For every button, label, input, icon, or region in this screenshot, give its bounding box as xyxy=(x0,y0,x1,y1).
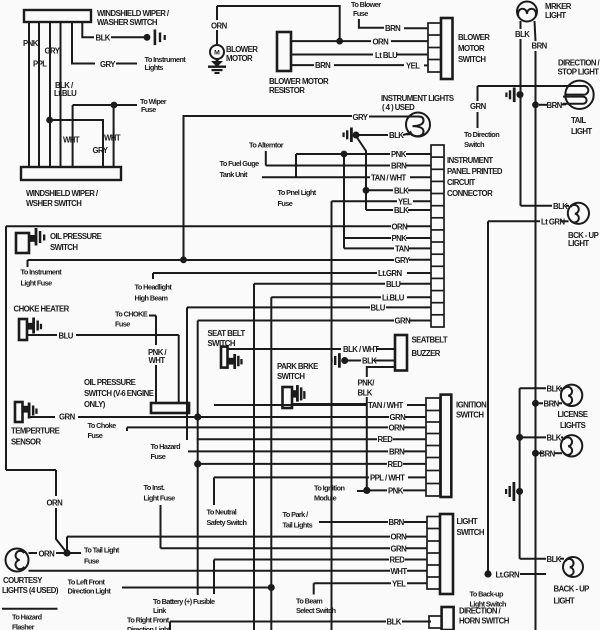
ignition switch connector xyxy=(426,395,451,497)
svg-text:BLK: BLK xyxy=(547,555,562,564)
svg-text:PNK: PNK xyxy=(388,486,404,495)
wire To Alterntor drop xyxy=(265,151,267,166)
wire BRN row2 xyxy=(266,165,390,167)
wire BRN to blower fuse xyxy=(359,19,384,28)
seatbelt buzzer connector xyxy=(395,335,407,371)
wire BLK row6 xyxy=(366,209,393,211)
svg-text:LIGHT: LIGHT xyxy=(571,127,592,136)
svg-text:To Left Front: To Left Front xyxy=(68,578,106,587)
svg-text:Fuse: Fuse xyxy=(353,9,368,18)
wire BRN marker down xyxy=(535,21,536,41)
svg-text:To Hazard: To Hazard xyxy=(12,613,42,622)
svg-text:DIRECTION /: DIRECTION / xyxy=(558,59,600,68)
svg-text:PPL / WHT: PPL / WHT xyxy=(370,473,405,482)
svg-text:SWITCH: SWITCH xyxy=(50,243,78,252)
junction GRY row10 xyxy=(180,256,187,263)
instrument panel printed circuit connector teeth xyxy=(431,145,444,327)
svg-text:BLU: BLU xyxy=(371,303,386,312)
wire Lt GRN bck-up xyxy=(488,221,569,574)
wire PNK ignition row / to ignition module xyxy=(357,489,426,492)
svg-text:PANEL PRINTED: PANEL PRINTED xyxy=(447,167,503,176)
svg-text:PNK: PNK xyxy=(392,234,408,243)
junction GRN row xyxy=(194,413,201,420)
svg-text:TAN / WHT: TAN / WHT xyxy=(368,401,404,410)
wire BRN to park/tail lights xyxy=(319,521,388,523)
svg-text:SWITCH: SWITCH xyxy=(456,411,484,420)
svg-text:Safety Switch: Safety Switch xyxy=(207,518,247,527)
svg-text:BRN: BRN xyxy=(389,518,405,527)
wire ORN row7 long xyxy=(6,225,391,227)
svg-text:SEAT BELT: SEAT BELT xyxy=(208,329,246,338)
svg-text:To Choke: To Choke xyxy=(88,421,117,430)
wire BLU row12 xyxy=(254,283,385,285)
svg-text:BLU: BLU xyxy=(59,332,74,341)
svg-text:TAIL: TAIL xyxy=(571,116,586,125)
wire TAN row9 xyxy=(344,247,394,249)
svg-text:BLK: BLK xyxy=(547,385,562,394)
wire BLU choke heater xyxy=(27,335,179,403)
svg-text:GRY: GRY xyxy=(45,47,61,56)
svg-text:GRN: GRN xyxy=(470,102,487,111)
svg-text:RED: RED xyxy=(388,460,404,469)
svg-text:LICENSE: LICENSE xyxy=(558,410,588,419)
svg-text:BLK: BLK xyxy=(387,618,402,627)
svg-text:To Blower: To Blower xyxy=(351,0,381,9)
svg-text:TAN / WHT: TAN / WHT xyxy=(371,173,407,182)
wire PNK drop to TAN/WHT xyxy=(295,154,297,177)
windshield wiper / wsher switch (bottom bar) xyxy=(21,167,121,208)
wire park brake to PNK/BLK xyxy=(292,403,367,405)
license lights bulb 2 xyxy=(561,435,582,456)
svg-text:BLU: BLU xyxy=(386,280,401,289)
blower motor switch connector xyxy=(428,18,453,79)
svg-text:Light Fuse: Light Fuse xyxy=(144,494,176,503)
wire BRN license 2 xyxy=(539,452,562,454)
svg-text:To Tail Light: To Tail Light xyxy=(84,546,120,555)
svg-text:PNK/: PNK/ xyxy=(358,379,376,388)
svg-text:BRN: BRN xyxy=(547,101,563,110)
svg-text:BLK: BLK xyxy=(96,34,111,43)
svg-text:( 4 ) USED: ( 4 ) USED xyxy=(382,103,415,112)
svg-text:WHT: WHT xyxy=(63,136,80,145)
svg-text:Light Fuse: Light Fuse xyxy=(21,279,53,288)
wire BLK marker down xyxy=(521,21,536,630)
svg-text:To Fuel Guge: To Fuel Guge xyxy=(220,159,260,168)
wire GRN drop to battery link xyxy=(197,321,199,596)
direction / stop light (tail light bulb) xyxy=(563,81,594,109)
svg-text:Fuse: Fuse xyxy=(151,452,166,461)
svg-text:WINDSHIELD WIPER /: WINDSHIELD WIPER / xyxy=(97,9,170,18)
wire ORN resistor row xyxy=(291,40,371,42)
svg-text:ORN: ORN xyxy=(373,38,390,47)
svg-text:Lt.GRN: Lt.GRN xyxy=(496,571,520,580)
svg-text:Li.BLU: Li.BLU xyxy=(382,293,405,302)
svg-text:CHOKE HEATER: CHOKE HEATER xyxy=(14,305,70,314)
ground (wiper BLK) xyxy=(144,30,166,46)
wire RED to battery fusible link xyxy=(214,559,389,561)
wire PNK wiper xyxy=(28,22,30,167)
wire BLK license 2 xyxy=(520,436,563,438)
svg-text:ORN: ORN xyxy=(39,550,56,559)
svg-text:OIL PRESSURE: OIL PRESSURE xyxy=(50,232,102,241)
svg-text:BLOWER MOTOR: BLOWER MOTOR xyxy=(269,77,329,86)
svg-text:BLK: BLK xyxy=(389,131,404,140)
wire BRN/YEL resistor row xyxy=(291,64,314,66)
svg-text:BLK: BLK xyxy=(553,202,568,211)
svg-text:To CHOKE: To CHOKE xyxy=(115,310,148,319)
svg-text:To Inst.: To Inst. xyxy=(144,483,165,492)
svg-text:To Ignition: To Ignition xyxy=(314,484,344,493)
svg-text:SWITCH: SWITCH xyxy=(457,528,485,537)
wire YEL row5 xyxy=(332,200,398,202)
svg-text:BLOWER: BLOWER xyxy=(458,33,490,42)
svg-text:ORN: ORN xyxy=(211,22,228,31)
svg-text:To Pnel Light: To Pnel Light xyxy=(278,188,317,197)
wire GRY to instrument lights bulb xyxy=(184,116,407,260)
svg-text:YEL: YEL xyxy=(406,62,420,71)
wire GRN temp sensor to ignition xyxy=(28,416,426,418)
park brke switch xyxy=(277,362,318,408)
wire ORN courtesy loop xyxy=(6,470,81,553)
svg-text:BACK - UP: BACK - UP xyxy=(554,585,590,594)
ground (license) xyxy=(505,482,523,501)
wire ORN ignition row xyxy=(127,427,426,431)
wire TAN/WHT row3 xyxy=(262,176,370,178)
wire GRY row10 long xyxy=(27,260,29,267)
svg-text:To Instrument: To Instrument xyxy=(21,268,63,277)
back-up light bulb (bottom) xyxy=(563,557,583,577)
wire BLU row14 xyxy=(187,306,370,308)
junction PNK ignition xyxy=(363,487,370,494)
wire BLK row4 xyxy=(366,189,393,191)
wire TAN/WHT ignition row xyxy=(214,404,426,406)
junction wiper fuse xyxy=(111,102,118,109)
wire BLK/WHT seat belt xyxy=(228,348,396,350)
wire GRY wiper vertical xyxy=(49,22,51,167)
svg-text:BLK: BLK xyxy=(394,186,409,195)
svg-text:Fuse: Fuse xyxy=(115,320,130,329)
svg-text:Link: Link xyxy=(153,606,167,615)
light switch connector xyxy=(427,514,453,594)
wire ORN left loop down xyxy=(5,226,7,470)
wire PNK row1 xyxy=(296,153,390,155)
wire WHT left xyxy=(72,105,74,167)
svg-text:Lights: Lights xyxy=(145,63,164,72)
svg-text:To Beam: To Beam xyxy=(296,597,323,606)
svg-text:M: M xyxy=(214,50,220,57)
svg-text:LIGHT: LIGHT xyxy=(545,11,566,20)
svg-text:Fuse: Fuse xyxy=(278,199,293,208)
svg-text:ORN: ORN xyxy=(47,499,64,508)
svg-text:Direction Light: Direction Light xyxy=(68,587,112,596)
svg-text:TAN: TAN xyxy=(395,244,410,253)
windshield wiper / washer switch (top bar) xyxy=(24,9,170,27)
wire BLK/Lt.BLU wiper xyxy=(60,22,62,167)
light switch rows xyxy=(29,505,428,595)
svg-text:Tail Lights: Tail Lights xyxy=(283,521,313,530)
svg-text:LIGHTS: LIGHTS xyxy=(560,421,586,430)
wire PNK/BLK buzzer to ignition xyxy=(367,367,395,490)
svg-text:Fuse: Fuse xyxy=(84,557,99,566)
svg-text:BRN: BRN xyxy=(532,42,548,51)
arrow tick into instrument bulb xyxy=(407,131,413,136)
wire WHT right xyxy=(113,105,115,167)
svg-text:BRN: BRN xyxy=(540,450,556,459)
wire Li.BLU long drop xyxy=(270,297,272,630)
svg-text:GRY: GRY xyxy=(93,146,109,155)
wire BLK back-up bottom xyxy=(520,558,564,560)
svg-text:To Park /: To Park / xyxy=(283,510,309,519)
svg-text:BLK: BLK xyxy=(394,206,409,215)
svg-text:WHT: WHT xyxy=(104,134,121,143)
svg-text:SWITCH (V-6 ENGINE: SWITCH (V-6 ENGINE xyxy=(84,389,154,398)
ground (instrument lights) xyxy=(343,128,360,143)
wire PNK link down xyxy=(343,154,345,248)
svg-text:PPL: PPL xyxy=(33,60,47,69)
svg-text:Select Switch: Select Switch xyxy=(296,606,336,615)
svg-text:Module: Module xyxy=(314,494,337,503)
svg-text:To Direction: To Direction xyxy=(464,130,499,139)
wire BRN to tail light xyxy=(539,103,566,105)
wire RED ignition row xyxy=(197,438,426,440)
svg-text:RESISTOR: RESISTOR xyxy=(269,86,305,95)
wire Lt.GRN to back-up light switch xyxy=(520,573,546,575)
svg-text:RED: RED xyxy=(390,556,406,565)
svg-text:To Right Front: To Right Front xyxy=(127,616,170,625)
svg-text:Fuse: Fuse xyxy=(88,431,103,440)
junction ORN blower xyxy=(336,38,343,45)
svg-text:WASHER SWITCH: WASHER SWITCH xyxy=(97,18,158,27)
instrument lights bulb xyxy=(404,113,430,137)
svg-text:SWITCH: SWITCH xyxy=(458,55,486,64)
svg-text:BRN: BRN xyxy=(544,400,560,409)
svg-text:BUZZER: BUZZER xyxy=(412,349,441,358)
wire to wiper fuse xyxy=(73,104,137,106)
svg-text:BLK / WHT: BLK / WHT xyxy=(343,345,379,354)
wire BLK to ground xyxy=(82,22,94,37)
wire ground drop to BLK rows xyxy=(357,138,366,211)
svg-text:BRN: BRN xyxy=(389,447,405,456)
svg-text:BLK: BLK xyxy=(515,30,530,39)
svg-text:BLOWER: BLOWER xyxy=(226,45,258,54)
svg-text:Lt.BLU: Lt.BLU xyxy=(54,89,77,98)
svg-text:MRKER: MRKER xyxy=(545,2,572,11)
seat belt switch xyxy=(208,329,246,369)
svg-text:LIGHT: LIGHT xyxy=(554,597,575,606)
ground (blower motor) xyxy=(208,59,226,74)
wire Lt.GRN row11 xyxy=(152,273,154,279)
svg-text:Fuse: Fuse xyxy=(141,105,156,114)
wire GRN row15 xyxy=(198,320,394,322)
svg-text:Flasher: Flasher xyxy=(12,623,35,630)
svg-text:WHT: WHT xyxy=(149,356,166,365)
svg-text:SWITCH: SWITCH xyxy=(277,372,305,381)
svg-text:IGNITION: IGNITION xyxy=(456,401,487,410)
wire PPL/WHT ignition row xyxy=(214,477,426,505)
svg-text:YEL: YEL xyxy=(392,579,406,588)
ground (seat belt buzzer) xyxy=(331,353,349,368)
svg-text:To Neutral: To Neutral xyxy=(207,508,237,517)
blower motor M circle xyxy=(210,6,340,59)
svg-text:To Hazard: To Hazard xyxy=(151,442,181,451)
svg-text:GRY: GRY xyxy=(353,113,369,122)
wire BLK direction/horn xyxy=(170,622,431,630)
svg-text:YEL: YEL xyxy=(398,197,412,206)
svg-text:BLK: BLK xyxy=(362,357,377,366)
svg-text:GRY: GRY xyxy=(395,256,411,265)
junction RED2 row xyxy=(194,460,201,467)
junction GRY jumper xyxy=(46,117,53,124)
svg-text:BLK: BLK xyxy=(547,434,562,443)
svg-text:BRN: BRN xyxy=(385,24,401,33)
wire YEL to beam select switch xyxy=(314,582,391,584)
wire GRY to instrument lights xyxy=(72,22,95,64)
svg-text:MOTOR: MOTOR xyxy=(458,44,485,53)
junction PNK/alterntor xyxy=(341,151,348,158)
svg-text:GRN: GRN xyxy=(395,317,412,326)
svg-text:SEATBELT: SEATBELT xyxy=(412,336,448,345)
wire PNK row8 xyxy=(344,237,391,239)
svg-text:PARK BRKE: PARK BRKE xyxy=(277,362,318,371)
svg-text:To Alterntor: To Alterntor xyxy=(249,141,284,150)
svg-text:WSHER SWITCH: WSHER SWITCH xyxy=(26,199,82,208)
wire to left front direction light xyxy=(122,587,270,589)
marker light bulb xyxy=(517,2,537,22)
svg-text:Switch: Switch xyxy=(464,140,484,149)
wire BLK license 1 xyxy=(520,388,562,558)
svg-text:OIL PRESSURE: OIL PRESSURE xyxy=(84,378,136,387)
temperture sensor xyxy=(11,402,60,447)
wire BRN license 1 xyxy=(539,402,562,404)
wire GRN to inst light fuse xyxy=(160,505,162,548)
svg-text:ORN: ORN xyxy=(389,423,406,432)
bck-up light bulb xyxy=(568,203,589,224)
svg-text:Lt BLU: Lt BLU xyxy=(375,51,398,60)
wire WHT courtesy bottom xyxy=(29,570,391,572)
svg-text:LIGHTS (4 USED): LIGHTS (4 USED) xyxy=(2,586,59,595)
svg-text:CIRCUIT: CIRCUIT xyxy=(447,178,476,187)
svg-text:STOP LIGHT: STOP LIGHT xyxy=(558,68,600,77)
oil pressure switch xyxy=(16,228,102,253)
svg-text:GRY: GRY xyxy=(100,60,116,69)
wire GRN to direction switch xyxy=(478,86,567,128)
wire BLK instrument lights xyxy=(357,133,409,210)
svg-text:Lt GRN: Lt GRN xyxy=(541,218,565,227)
svg-text:WINDSHIELD WIPER /: WINDSHIELD WIPER / xyxy=(26,189,99,198)
license lights bulb 1 xyxy=(561,385,582,406)
wire RED2 ignition row xyxy=(198,463,426,465)
courtesy lights bulb xyxy=(6,549,29,572)
svg-text:To Battery (+) Fusible: To Battery (+) Fusible xyxy=(153,597,215,606)
svg-text:INSTRUMENT LIGHTS: INSTRUMENT LIGHTS xyxy=(381,94,454,103)
svg-text:BLK: BLK xyxy=(358,389,373,398)
svg-text:To Back-up: To Back-up xyxy=(470,590,505,599)
svg-text:WHT: WHT xyxy=(391,567,408,576)
svg-text:ORN: ORN xyxy=(391,533,408,542)
wire BLU long drop xyxy=(253,284,255,630)
wire YEL long drop xyxy=(331,201,333,630)
svg-text:Tank Unit: Tank Unit xyxy=(220,170,249,179)
svg-text:BRN: BRN xyxy=(315,61,331,70)
choke heater xyxy=(14,305,70,341)
svg-text:ORN: ORN xyxy=(392,222,409,231)
svg-text:HORN SWITCH: HORN SWITCH xyxy=(459,617,510,626)
oil pressure switch V-6 rect xyxy=(151,403,189,413)
wire PNK/WHT to choke fuse xyxy=(149,316,156,404)
svg-text:High Beam: High Beam xyxy=(135,294,169,303)
svg-text:LIGHT: LIGHT xyxy=(568,239,589,248)
wire BLU2 drop to hazard fuse xyxy=(186,307,188,440)
ground (tail light) xyxy=(505,88,523,103)
svg-text:GRN: GRN xyxy=(59,413,76,422)
wire GRY jumper xyxy=(50,120,103,167)
svg-text:MOTOR: MOTOR xyxy=(226,54,253,63)
svg-text:TEMPERTURE: TEMPERTURE xyxy=(11,427,60,436)
svg-text:To Headlight: To Headlight xyxy=(135,283,173,292)
junction BRN tail xyxy=(532,101,539,108)
svg-text:Direction Light: Direction Light xyxy=(127,625,171,630)
wire BRN ignition row xyxy=(197,450,426,452)
svg-text:GRN: GRN xyxy=(391,544,408,553)
svg-text:PNK: PNK xyxy=(23,39,39,48)
svg-text:LIGHT: LIGHT xyxy=(457,517,478,526)
direction / horn switch connector xyxy=(429,607,454,630)
wire Li.BLU row13 xyxy=(271,296,381,298)
wire PPL wiper xyxy=(38,22,40,167)
wire BLK to bck-up light xyxy=(521,205,570,207)
svg-text:COURTESY: COURTESY xyxy=(3,576,43,585)
svg-text:GRN: GRN xyxy=(390,413,407,422)
wire ORN courtesy to light switch xyxy=(67,536,390,538)
svg-text:SENSOR: SENSOR xyxy=(11,438,42,447)
wire Lt BLU resistor row xyxy=(291,54,373,56)
wire to hazard flasher xyxy=(2,608,58,610)
blower motor resistor xyxy=(277,32,291,71)
svg-text:INSTRUMENT: INSTRUMENT xyxy=(447,156,493,165)
svg-text:DIRECTION /: DIRECTION / xyxy=(459,607,502,616)
svg-text:PNK: PNK xyxy=(391,150,407,159)
wire BLK buzzer xyxy=(348,360,395,362)
svg-text:BRN: BRN xyxy=(391,162,407,171)
svg-text:Lt.GRN: Lt.GRN xyxy=(378,269,402,278)
svg-text:RED: RED xyxy=(378,435,394,444)
svg-text:CONNECTOR: CONNECTOR xyxy=(447,189,493,198)
wire blower feed top xyxy=(217,6,340,41)
junction BLK row4 xyxy=(363,187,370,194)
svg-text:ONLY): ONLY) xyxy=(84,400,106,409)
